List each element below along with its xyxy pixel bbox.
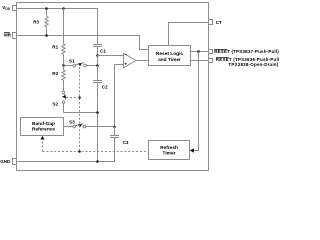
svg-text:and Timer: and Timer bbox=[158, 57, 181, 63]
wire S2 output to ground column bbox=[64, 112, 98, 114]
resistor R1 bbox=[52, 44, 65, 66]
wire dashed band-gap control branch bbox=[42, 140, 44, 152]
svg-text:C3: C3 bbox=[123, 140, 129, 145]
node: S3 output / comparator plus / C3 junction bbox=[113, 126, 116, 129]
pin GND bbox=[0, 159, 16, 165]
pin MR bbox=[4, 32, 17, 38]
svg-text:DD: DD bbox=[5, 7, 10, 11]
svg-text:C1: C1 bbox=[100, 49, 106, 54]
node: S1 output / C2 top bbox=[96, 64, 99, 67]
op-amp U1 comparator bbox=[124, 53, 136, 67]
svg-text:GND: GND bbox=[0, 159, 11, 164]
wire CT to Reset Logic bbox=[169, 23, 209, 46]
wire comparator minus input bbox=[98, 55, 124, 57]
arrow: S2 control arrowhead bbox=[62, 95, 66, 98]
svg-text:R2: R2 bbox=[52, 71, 58, 76]
node: divider column top junction bbox=[62, 7, 65, 10]
Band-Gap Reference block bbox=[21, 118, 64, 136]
node: S2 output junction on ground column bbox=[96, 111, 99, 114]
arrow: refresh timer input arrowhead bbox=[190, 148, 194, 152]
svg-text:Timer: Timer bbox=[163, 151, 176, 157]
wire MR rail bbox=[17, 36, 149, 50]
Reset Logic and Timer block bbox=[149, 46, 191, 66]
pin RESET push-pull bbox=[209, 49, 280, 54]
svg-text:CT: CT bbox=[216, 20, 222, 25]
wire RESET open-drain output bbox=[191, 60, 209, 62]
wire divider column from VDD rail to R1 bbox=[63, 9, 65, 45]
svg-text:R1: R1 bbox=[52, 45, 58, 50]
wire VDD rail bbox=[17, 9, 98, 45]
wire comparator plus input from reference node bbox=[115, 65, 124, 127]
wire refresh feedback bbox=[194, 52, 199, 151]
switch S3 bbox=[64, 120, 115, 128]
capacitor C2 bbox=[93, 66, 108, 162]
svg-text:Reset Logic: Reset Logic bbox=[156, 51, 184, 57]
svg-text:C2: C2 bbox=[102, 84, 108, 89]
pin RESET open-drain bbox=[209, 57, 280, 67]
node: R1/R2/S1 junction bbox=[62, 64, 65, 67]
svg-text:TPS3838-Open-Drain): TPS3838-Open-Drain) bbox=[228, 62, 278, 67]
wire dashed S2 control branch bbox=[66, 97, 80, 99]
wire comparator output bbox=[136, 60, 149, 62]
wire GND rail bbox=[17, 138, 115, 162]
switch S2 bbox=[52, 91, 66, 112]
pin CT bbox=[209, 20, 223, 26]
node: R3 bottom junction on MR rail bbox=[45, 34, 48, 37]
wire dashed control bus vertical bbox=[79, 67, 81, 152]
svg-text:S3: S3 bbox=[69, 120, 75, 125]
svg-text:R3: R3 bbox=[33, 19, 39, 24]
IC boundary box bbox=[17, 3, 209, 171]
wire RESET push-pull output bbox=[191, 51, 209, 53]
node: C1 bottom / comparator minus bbox=[96, 54, 99, 57]
pin VDD bbox=[2, 5, 16, 11]
svg-text:Refresh: Refresh bbox=[160, 145, 178, 151]
capacitor C3 bbox=[110, 127, 129, 146]
node: dashed junction bottom bbox=[78, 150, 81, 153]
arrow: band-gap control arrowhead bbox=[40, 136, 44, 140]
svg-text:S2: S2 bbox=[52, 102, 58, 107]
node: refresh feedback junction bbox=[197, 50, 200, 53]
Refresh Timer block bbox=[149, 141, 190, 160]
arrow: S3 control arrowhead bbox=[78, 124, 82, 127]
resistor R3 bbox=[33, 9, 48, 36]
wire C1 node down to S1 output node bbox=[97, 56, 99, 66]
svg-text:S1: S1 bbox=[69, 59, 75, 64]
node: dashed junction S2 branch bbox=[78, 96, 81, 99]
node: R3 top junction bbox=[45, 7, 48, 10]
svg-text:MR: MR bbox=[4, 32, 12, 37]
resistor R2 bbox=[52, 66, 65, 92]
svg-text:Reference: Reference bbox=[32, 126, 56, 132]
svg-text:Band-Gap: Band-Gap bbox=[32, 121, 55, 127]
switch S1 bbox=[65, 59, 98, 67]
arrow: S1 control arrowhead bbox=[78, 63, 82, 66]
wire dashed control bus horizontal bbox=[43, 151, 149, 153]
capacitor C1 bbox=[93, 45, 106, 56]
node: ground column junction on GND rail bbox=[96, 160, 99, 163]
